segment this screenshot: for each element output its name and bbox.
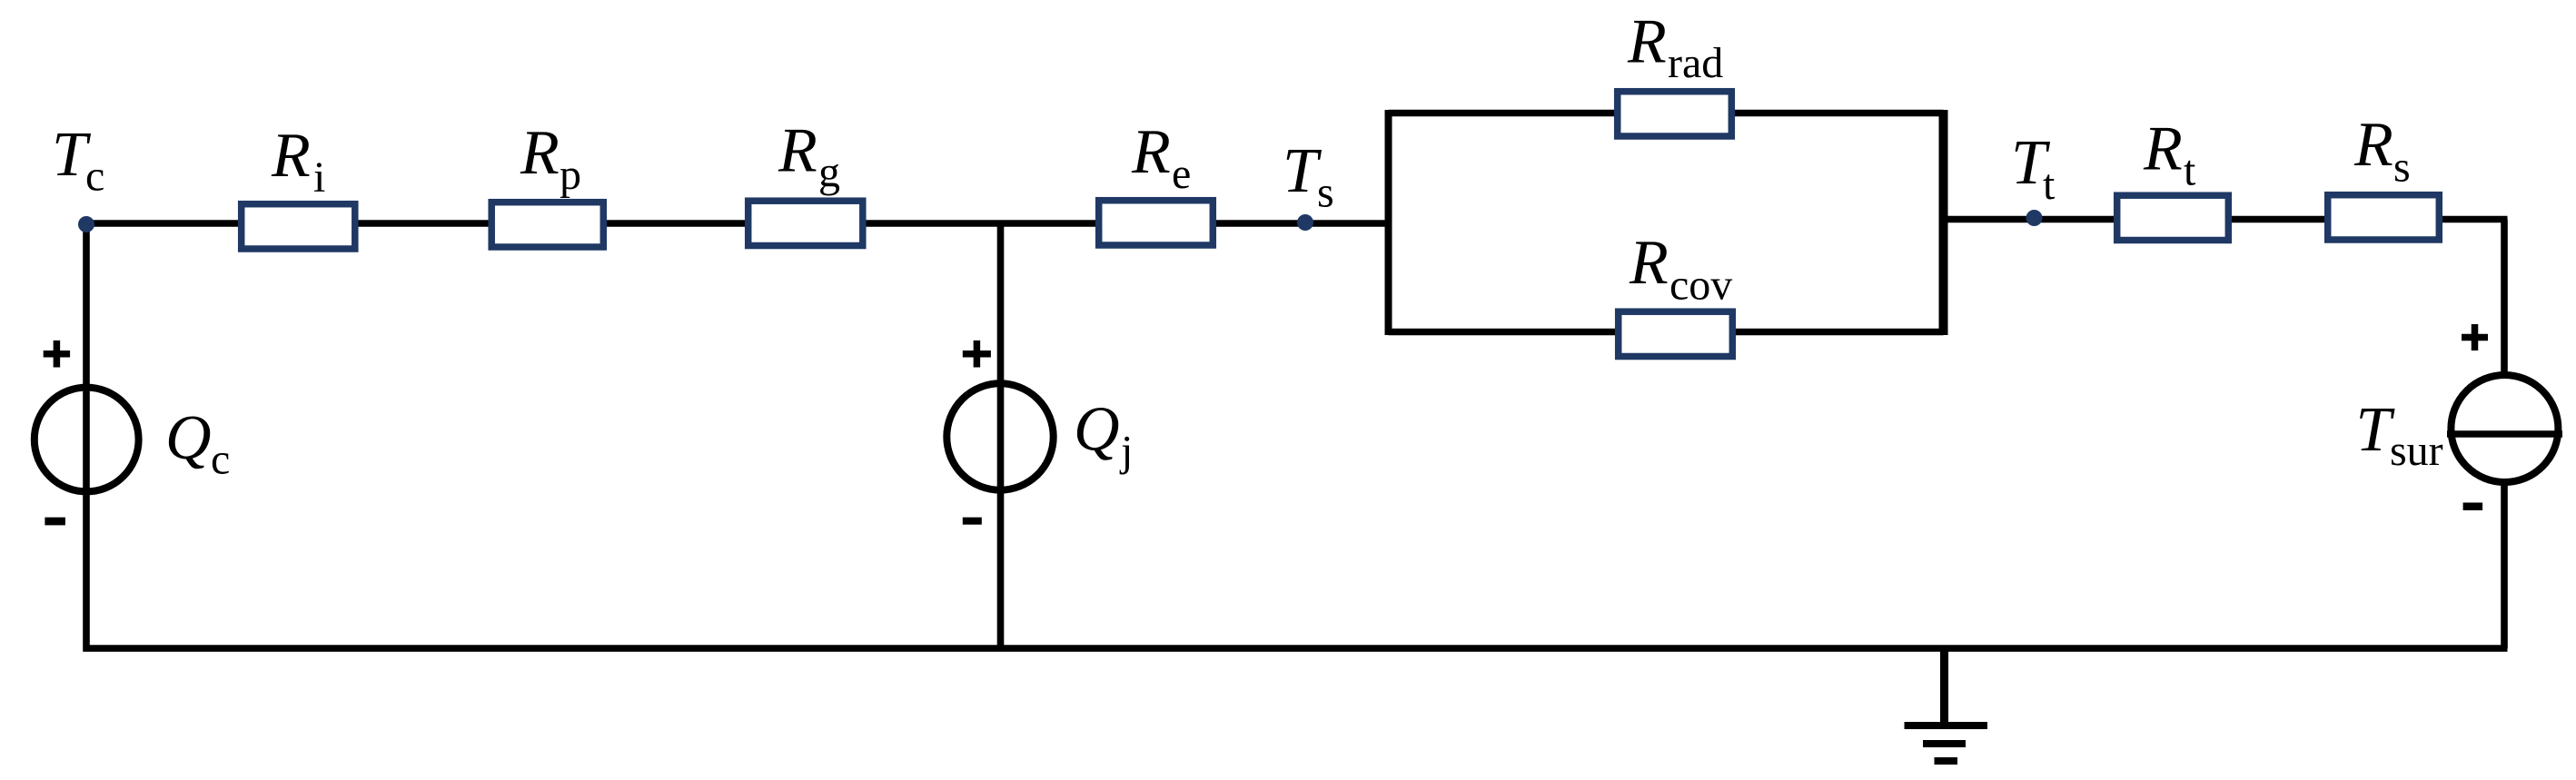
plus sign Qj — [963, 341, 991, 368]
svg-text:e: e — [1172, 150, 1191, 198]
svg-text:R: R — [1627, 7, 1667, 77]
svg-text:R: R — [2353, 110, 2393, 180]
svg-text:s: s — [2393, 143, 2411, 192]
resistor Re — [1099, 201, 1214, 245]
resistor Ri — [242, 204, 355, 249]
wire: left vertical (Tc down through Qc to bottom) — [83, 223, 90, 652]
plus sign Tsur — [2462, 324, 2488, 351]
source Qj — [946, 383, 1053, 489]
svg-text:R: R — [271, 121, 311, 191]
svg-text:c: c — [85, 153, 104, 201]
svg-text:s: s — [1317, 169, 1334, 217]
svg-text:t: t — [2043, 161, 2056, 209]
resistor Rt — [2117, 195, 2229, 240]
svg-text:R: R — [520, 118, 560, 188]
svg-text:rad: rad — [1668, 39, 1723, 87]
svg-text:t: t — [2184, 147, 2196, 195]
svg-text:R: R — [778, 116, 817, 186]
svg-text:sur: sur — [2390, 427, 2443, 475]
svg-text:i: i — [313, 153, 325, 202]
line through Tsur — [2447, 430, 2562, 438]
resistor Rrad — [1618, 92, 1732, 136]
wire: bottom rail — [84, 645, 2508, 652]
wire: parallel block right bar — [1939, 110, 1948, 335]
resistor Rp — [491, 202, 603, 247]
svg-text:Q: Q — [165, 403, 212, 473]
svg-text:p: p — [560, 151, 581, 199]
wire: parallel block bottom branch — [1389, 329, 1944, 336]
resistor Rcov — [1619, 311, 1733, 356]
wire: Qj vertical branch — [997, 223, 1005, 648]
svg-text:Q: Q — [1074, 395, 1120, 465]
node Ts — [1297, 214, 1313, 231]
wire: main top left (Tc to parallel block) — [86, 220, 1392, 227]
ground stem — [1940, 648, 1948, 722]
svg-text:j: j — [1119, 428, 1133, 476]
ground bar 3 — [1935, 757, 1958, 765]
minus sign Tsur — [2463, 503, 2483, 511]
plus sign Qc — [44, 341, 70, 368]
resistor Rg — [748, 201, 863, 245]
wire: right vertical above Tsur — [2501, 220, 2508, 377]
resistor Rs — [2328, 195, 2440, 240]
svg-text:cov: cov — [1669, 262, 1732, 310]
node Tc — [78, 216, 94, 232]
source Qc — [35, 388, 139, 492]
wire: parallel block left bar — [1385, 110, 1392, 335]
svg-text:R: R — [2143, 114, 2183, 184]
node Tt — [2026, 210, 2043, 226]
wire: right vertical below Tsur — [2501, 479, 2508, 648]
wire: main top right (block to Tsur corner) — [1944, 216, 2508, 223]
wire: parallel block top branch — [1389, 110, 1944, 117]
svg-text:g: g — [818, 149, 840, 197]
source Tsur — [2451, 375, 2558, 482]
svg-text:c: c — [211, 436, 230, 484]
ground bar 2 — [1923, 740, 1966, 747]
svg-text:R: R — [1131, 117, 1171, 187]
ground bar 1 — [1905, 722, 1988, 729]
svg-text:R: R — [1629, 228, 1669, 298]
minus sign Qj — [963, 518, 982, 525]
minus sign Qc — [45, 518, 65, 526]
